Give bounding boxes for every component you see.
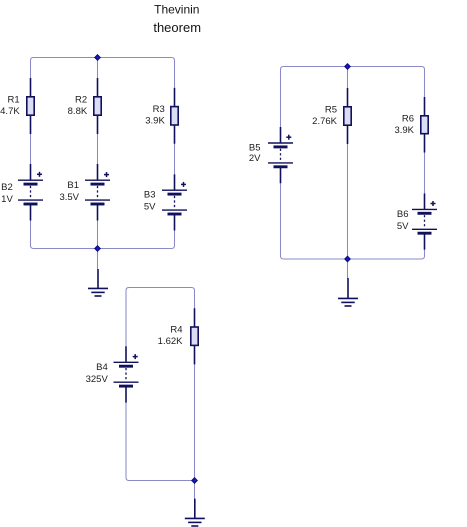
plus sign B5 (286, 136, 291, 138)
wire (31, 58, 175, 88)
node: right circuit bottom junction (345, 256, 350, 261)
svg-text:2V: 2V (249, 153, 261, 164)
wire (30, 134, 32, 164)
battery B2 (18, 164, 43, 221)
battery B1 (85, 164, 110, 221)
resistor R2 (94, 78, 101, 134)
svg-text:R1: R1 (8, 94, 20, 105)
svg-text:R3: R3 (153, 104, 165, 115)
svg-text:B3: B3 (144, 190, 156, 201)
svg-text:R4: R4 (170, 324, 182, 335)
svg-text:1.62K: 1.62K (158, 336, 183, 347)
node: left circuit bottom junction (95, 246, 100, 251)
plus sign B3 (181, 183, 186, 185)
svg-text:5V: 5V (397, 221, 409, 232)
wire (281, 67, 425, 128)
node: right circuit top junction (345, 64, 350, 69)
wire (31, 221, 175, 249)
svg-text:3.5V: 3.5V (59, 192, 79, 203)
svg-text:3.9K: 3.9K (394, 125, 414, 136)
wire (281, 183, 425, 259)
svg-text:B1: B1 (67, 180, 79, 191)
node: left circuit top junction (95, 55, 100, 60)
plus sign B2 (37, 173, 42, 175)
svg-text:5V: 5V (144, 201, 156, 212)
svg-text:R2: R2 (75, 94, 87, 105)
wire (97, 134, 99, 164)
plus sign B4 (133, 356, 138, 358)
svg-text:B2: B2 (1, 182, 13, 193)
svg-text:B6: B6 (397, 209, 409, 220)
svg-text:B4: B4 (96, 362, 108, 373)
wire (424, 153, 426, 194)
svg-text:2.76K: 2.76K (312, 116, 337, 127)
wire (347, 67, 349, 89)
svg-text:4.7K: 4.7K (0, 106, 20, 117)
resistor R6 (421, 97, 428, 153)
wire (194, 364, 196, 498)
battery B4 (114, 346, 139, 402)
svg-text:1V: 1V (1, 194, 13, 205)
plus sign B6 (431, 203, 436, 205)
wire (97, 58, 99, 79)
ground right circuit (338, 278, 358, 306)
resistor R1 (27, 78, 34, 134)
svg-text:R5: R5 (325, 104, 337, 115)
ground left circuit (88, 269, 108, 296)
svg-text:325V: 325V (86, 374, 109, 385)
wire (97, 221, 99, 270)
svg-text:3.9K: 3.9K (145, 116, 165, 127)
svg-text:R6: R6 (402, 113, 414, 124)
battery B6 (412, 193, 437, 249)
wire (126, 288, 195, 347)
svg-text:theorem: theorem (153, 20, 201, 35)
svg-text:8.8K: 8.8K (68, 106, 88, 117)
resistor R4 (191, 308, 198, 364)
battery B5 (268, 127, 293, 183)
node: bottom circuit junction (192, 478, 197, 483)
wire (174, 144, 176, 175)
svg-text:Thevinin: Thevinin (154, 3, 199, 17)
wire (347, 144, 349, 278)
plus sign B1 (104, 174, 109, 176)
battery B3 (162, 174, 187, 230)
ground bottom circuit (185, 499, 205, 526)
wire (126, 403, 195, 481)
resistor R5 (344, 88, 351, 144)
svg-text:B5: B5 (249, 142, 261, 153)
resistor R3 (171, 88, 178, 144)
